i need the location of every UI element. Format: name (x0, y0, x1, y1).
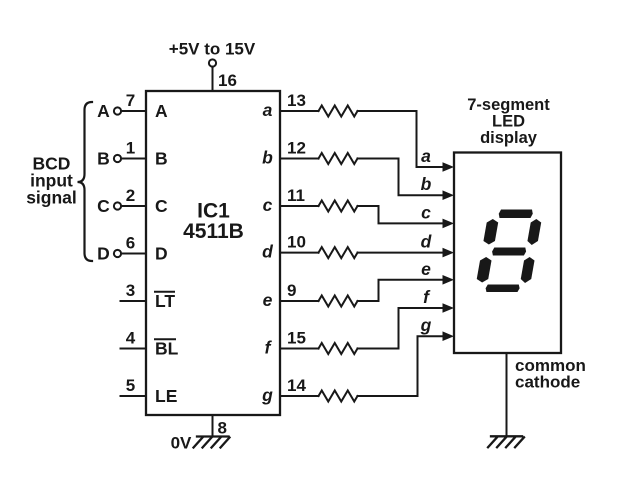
svg-text:LE: LE (155, 386, 177, 406)
wire f from IC (280, 348, 319, 350)
svg-text:8: 8 (218, 419, 227, 438)
svg-text:7: 7 (126, 91, 135, 110)
svg-text:A: A (97, 101, 110, 121)
wire A (121, 110, 146, 112)
svg-text:12: 12 (287, 139, 306, 158)
wire f to display (358, 308, 444, 349)
svg-text:A: A (155, 101, 168, 121)
wire LT (121, 300, 147, 302)
wire g from IC (280, 395, 319, 397)
resistor R7 (319, 391, 358, 402)
op-amp U1 IC1 4511B box (146, 91, 280, 415)
terminal A (114, 107, 121, 114)
segment f (483, 219, 499, 245)
svg-text:d: d (421, 232, 432, 252)
node d arrow (443, 248, 455, 258)
svg-text:B: B (155, 149, 168, 169)
svg-text:C: C (155, 196, 168, 216)
node f arrow (443, 303, 455, 313)
svg-text:g: g (261, 385, 273, 405)
resistor R2 (319, 153, 358, 164)
svg-text:D: D (155, 244, 168, 264)
wire b from IC (280, 158, 319, 160)
7-segment LED display title (467, 96, 550, 147)
svg-text:e: e (263, 290, 273, 310)
svg-text:C: C (97, 196, 110, 216)
ground symbol display (488, 436, 524, 447)
svg-text:9: 9 (287, 281, 296, 300)
wire B (121, 158, 146, 160)
wire c to display (358, 206, 444, 223)
svg-text:D: D (97, 244, 110, 264)
svg-text:0V: 0V (171, 434, 192, 453)
node e arrow (443, 275, 455, 285)
wire a from IC (280, 110, 319, 112)
svg-text:7-segment: 7-segment (467, 96, 550, 114)
wire d from IC (280, 252, 319, 254)
svg-text:d: d (262, 242, 273, 262)
BCD input signal label (26, 154, 77, 208)
svg-text:B: B (97, 149, 110, 169)
svg-text:LT: LT (155, 291, 175, 311)
wire BL (121, 348, 147, 350)
svg-text:b: b (421, 174, 432, 194)
svg-text:4: 4 (126, 329, 136, 348)
ground symbol 0V (194, 437, 230, 448)
terminal B (114, 155, 121, 162)
wire e from IC (280, 300, 319, 302)
svg-text:11: 11 (287, 186, 305, 205)
svg-text:15: 15 (287, 329, 306, 348)
svg-text:BL: BL (155, 339, 179, 359)
segment c (520, 257, 535, 283)
resistor R6 (319, 343, 358, 354)
segment b (527, 219, 542, 245)
segment g (491, 248, 526, 256)
node a arrow (443, 162, 455, 172)
svg-text:4511B: 4511B (183, 220, 244, 243)
svg-text:signal: signal (26, 188, 77, 208)
svg-text:10: 10 (287, 233, 306, 252)
wire LE (121, 395, 147, 397)
wire g to display (358, 336, 444, 396)
node g arrow (443, 331, 455, 341)
wire d to display (358, 252, 444, 254)
wire Vdd to pin 16 (212, 67, 214, 90)
wire a to display (358, 111, 444, 167)
7-segment digit 8 (474, 210, 543, 293)
segment a (498, 210, 533, 219)
common cathode label (515, 356, 586, 392)
wire common cathode (506, 353, 508, 436)
svg-text:a: a (421, 146, 431, 166)
power terminal circle (209, 59, 216, 66)
segment e (476, 257, 492, 283)
svg-text:c: c (421, 202, 431, 222)
wire b to display (358, 159, 444, 196)
svg-text:1: 1 (126, 139, 135, 158)
svg-text:14: 14 (287, 376, 306, 395)
terminal D (114, 250, 121, 257)
svg-text:3: 3 (126, 281, 135, 300)
brace BCD inputs (78, 102, 93, 261)
resistor R3 (319, 201, 358, 212)
svg-text:6: 6 (126, 234, 135, 253)
resistor R5 (319, 296, 358, 307)
svg-text:a: a (263, 100, 273, 120)
svg-text:e: e (421, 259, 431, 279)
display U2 box (454, 153, 561, 354)
svg-text:cathode: cathode (515, 373, 580, 392)
svg-text:2: 2 (126, 186, 135, 205)
resistor R4 (319, 247, 358, 258)
svg-text:16: 16 (218, 71, 237, 90)
wire pin 8 to ground (212, 415, 214, 437)
segment d (485, 285, 520, 293)
resistor R1 (319, 106, 358, 117)
wire D (121, 253, 146, 255)
svg-text:c: c (263, 195, 273, 215)
node b arrow (443, 190, 455, 200)
svg-text:5: 5 (126, 376, 135, 395)
svg-text:g: g (420, 315, 432, 335)
svg-text:LED: LED (492, 113, 525, 131)
wire C (121, 205, 146, 207)
svg-text:b: b (262, 148, 273, 168)
svg-text:display: display (480, 129, 538, 147)
svg-text:+5V to 15V: +5V to 15V (169, 40, 256, 59)
wire e to display (358, 280, 444, 301)
svg-text:13: 13 (287, 91, 306, 110)
wire c from IC (280, 205, 319, 207)
terminal C (114, 202, 121, 209)
node c arrow (443, 219, 455, 229)
